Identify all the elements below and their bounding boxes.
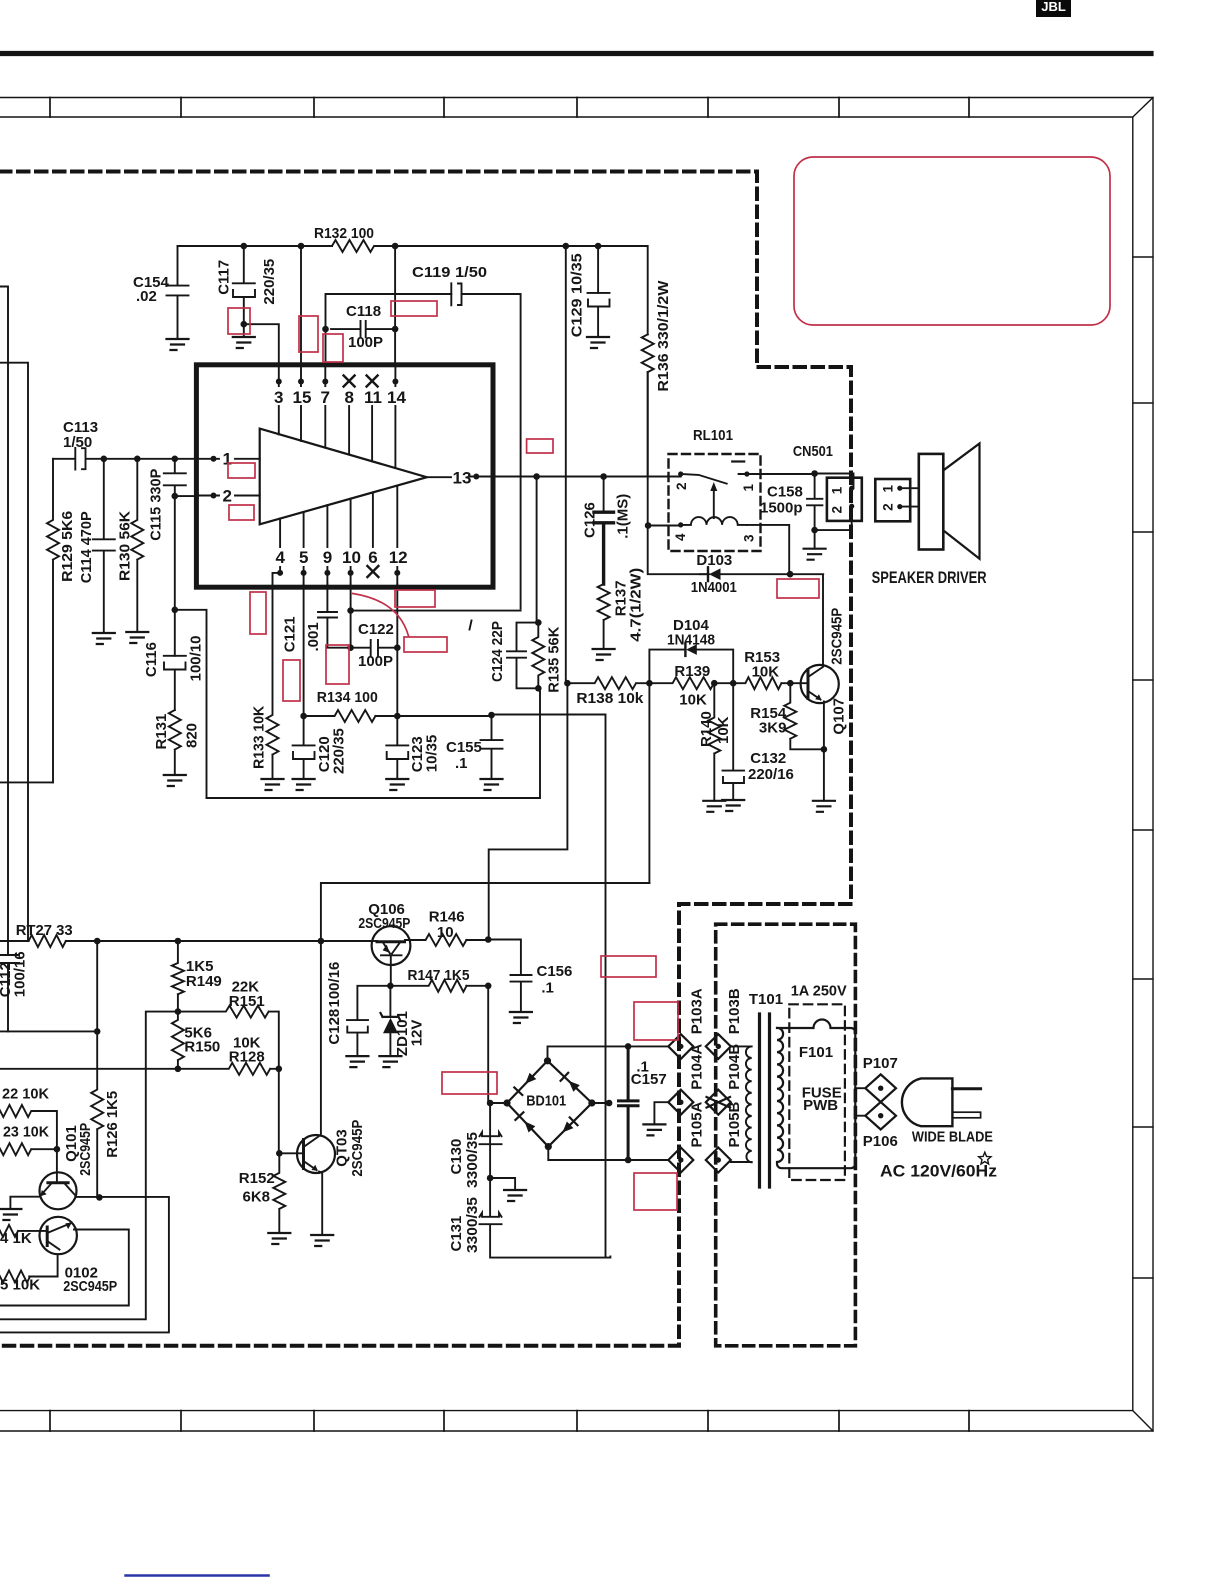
resistor R151 22K xyxy=(178,979,279,1069)
svg-text:820: 820 xyxy=(184,723,201,748)
transistor Q101 2SC945P xyxy=(40,1123,95,1210)
wire C115 node down to C116 xyxy=(174,496,176,656)
wire pin2 from C115 node xyxy=(175,495,197,497)
node junction dot R135/C124 bottom xyxy=(535,685,542,692)
wire pin 12 down to R134 rail xyxy=(396,584,398,716)
svg-text:2SC945P: 2SC945P xyxy=(349,1120,366,1177)
node junction dot BD101 left vertex tie xyxy=(487,1100,494,1107)
node junction dot R151/R128 corner xyxy=(276,1066,283,1073)
ground for Q101 emitter xyxy=(0,1209,21,1220)
capacitor C131 3300/35 (electrolytic) xyxy=(448,1178,610,1258)
node junction dots on pin1 net xyxy=(101,456,179,463)
svg-text:C124 22P: C124 22P xyxy=(489,621,506,682)
svg-text:1500p: 1500p xyxy=(760,500,803,517)
pin 3 lead and number xyxy=(274,365,283,434)
red mark box near C117 xyxy=(228,308,250,334)
wire loop from R149 node to bottom left xyxy=(0,1012,178,1320)
resistor R128 10K xyxy=(178,1034,279,1075)
svg-text:12: 12 xyxy=(389,548,408,567)
svg-text:1N4148: 1N4148 xyxy=(667,632,715,649)
diode D103 1N4001 xyxy=(691,552,790,596)
resistor R138 10k xyxy=(567,677,649,707)
node junction dot pin10/C122 left xyxy=(347,644,354,651)
svg-text:6K8: 6K8 xyxy=(243,1189,271,1206)
red mark box above C157 xyxy=(634,1002,678,1040)
node junction dot C122 right / pin 12 xyxy=(394,644,401,651)
capacitor C123 10/35 (electrolytic) xyxy=(386,716,440,779)
pin 12 lead and number xyxy=(389,486,408,585)
svg-text:R131: R131 xyxy=(153,714,170,750)
svg-text:220/35: 220/35 xyxy=(331,728,348,774)
transistor Q102 2SC945P xyxy=(40,1217,118,1295)
svg-text:R126 1K5: R126 1K5 xyxy=(104,1091,121,1158)
connector diamond P105A xyxy=(668,1101,705,1172)
relay coil RL101 xyxy=(673,517,757,542)
resistor R124 4 1K (cut at edge) xyxy=(0,1225,47,1247)
resistor R122 22 10K (cut at edge) xyxy=(0,1086,57,1150)
svg-text:10: 10 xyxy=(342,548,361,567)
pin 13 lead and number xyxy=(427,469,493,488)
capacitor C156 .1 xyxy=(511,963,573,1012)
svg-text:C122: C122 xyxy=(358,621,394,638)
resistor R153 10K xyxy=(733,649,808,689)
capacitor C122 100P xyxy=(351,621,398,670)
wire Q101 emitter to ground xyxy=(10,1197,39,1209)
svg-text:F101: F101 xyxy=(799,1044,833,1061)
capacitor C115 330P xyxy=(148,459,186,541)
svg-text:4.7(1/2W): 4.7(1/2W) xyxy=(628,568,645,642)
node junction dot C117 bottom xyxy=(241,321,248,328)
svg-text:1N4001: 1N4001 xyxy=(691,579,737,596)
capacitor C155 .1 xyxy=(446,715,503,779)
red mark box near C121 xyxy=(283,660,300,701)
zener diode ZD101 12V xyxy=(381,986,426,1056)
red mark box at pin1 xyxy=(228,463,255,478)
svg-text:5 10K: 5 10K xyxy=(0,1277,40,1294)
JBL logo box xyxy=(1036,0,1071,17)
red rounded callout box xyxy=(794,157,1110,325)
svg-text:C115 330P: C115 330P xyxy=(148,469,165,541)
ground for R133 xyxy=(262,779,284,790)
wire Q107 collector up to D103 node xyxy=(790,574,823,666)
svg-text:100/16: 100/16 xyxy=(12,951,29,997)
svg-text:3K9: 3K9 xyxy=(759,720,787,737)
svg-text:R133 10K: R133 10K xyxy=(251,706,268,769)
svg-text:.1: .1 xyxy=(455,755,468,772)
ground for R140 xyxy=(703,801,725,812)
wire supply drop to BD101 left xyxy=(488,986,490,1178)
ground for C154 xyxy=(167,339,189,350)
node junction dot R146 / supply drop xyxy=(485,936,492,943)
wire mid tap to bottom rail corner xyxy=(175,610,207,798)
red mark box below pin4 xyxy=(250,592,266,634)
node junction dot C118 right xyxy=(392,326,399,333)
red mark box near pin15 xyxy=(299,316,318,352)
svg-text:R140: R140 xyxy=(698,711,715,747)
wire relay contact to CN501 xyxy=(747,474,854,489)
wire R129 bottom to left edge xyxy=(0,781,53,783)
connector diamond P104B crossed xyxy=(706,1044,743,1115)
svg-text:C121: C121 xyxy=(282,616,299,652)
svg-text:T101: T101 xyxy=(749,991,783,1008)
svg-text:C157: C157 xyxy=(631,1071,667,1088)
red mark box right of C118 xyxy=(391,301,437,316)
connector diamond P103B xyxy=(706,988,743,1059)
svg-text:CN501: CN501 xyxy=(793,443,833,460)
node junction dot C157 top xyxy=(625,1043,632,1050)
svg-text:15: 15 xyxy=(293,388,312,407)
resistor R135 56K xyxy=(532,623,562,693)
capacitor C129 10/35 (electrolytic) xyxy=(569,253,610,337)
connector diamond P104A with ground xyxy=(654,1044,705,1125)
connector diamond P103A xyxy=(668,988,705,1059)
svg-text:.02: .02 xyxy=(136,288,157,305)
svg-text:.001: .001 xyxy=(305,622,322,651)
svg-text:2SC945P: 2SC945P xyxy=(63,1278,117,1295)
resistor R137 4.7(1/2W) xyxy=(598,568,645,649)
svg-text:C117: C117 xyxy=(216,260,233,295)
svg-text:SPEAKER DRIVER: SPEAKER DRIVER xyxy=(872,568,987,587)
wire feedback drop from top rail to R138 with jog xyxy=(489,246,568,938)
wire R134 rail to C155 and corner down xyxy=(397,715,605,1257)
node junction dot D103 / coil pin3 / Q107 collector xyxy=(787,571,794,578)
capacitor C119 1/50 (electrolytic) xyxy=(412,264,487,305)
svg-text:AC 120V/60Hz: AC 120V/60Hz xyxy=(880,1162,997,1181)
ANNOTATIONS red marks xyxy=(228,157,1110,1210)
thick top rule xyxy=(0,51,1151,56)
WIRES_AND_PARTS xyxy=(0,157,1110,1332)
node junction dot BD101 right / bus xyxy=(606,1100,613,1107)
wire Q101 collector loop xyxy=(0,1197,169,1333)
wire C129 branch from rail xyxy=(597,246,599,293)
capacitor C113 1/50 (electrolytic) xyxy=(53,419,196,470)
border right ticks xyxy=(1133,257,1153,1278)
node junction dot pin12/C123 xyxy=(394,713,401,720)
red mark box below C157 xyxy=(634,1173,677,1210)
ground for C155 xyxy=(481,779,503,790)
node junction dot Q107 emitter / R154 xyxy=(821,746,828,753)
svg-text:P107: P107 xyxy=(863,1055,898,1072)
svg-text:3300/35: 3300/35 xyxy=(464,1132,481,1188)
svg-text:R136 330/1/2W: R136 330/1/2W xyxy=(655,280,672,392)
pin 2 lead and number xyxy=(196,487,259,506)
AC plug WIDE BLADE xyxy=(902,1078,993,1145)
red mark box at pin2 xyxy=(229,505,254,520)
main PWB dashed boundary xyxy=(0,172,851,1346)
node junction dot R150/R128 xyxy=(175,1066,182,1073)
capacitor C116 100/10 (electrolytic) xyxy=(143,636,205,710)
red mark box near pin9 xyxy=(326,645,349,684)
svg-text:P105A: P105A xyxy=(689,1101,706,1147)
svg-text:10K: 10K xyxy=(752,664,780,681)
svg-text:R151: R151 xyxy=(229,993,265,1010)
node junction dot coil pin4 branch xyxy=(645,522,652,529)
resistor R134 100 xyxy=(304,689,398,722)
capacitor C158 1500p xyxy=(760,474,822,531)
svg-text:1: 1 xyxy=(830,486,845,494)
node junction dot C158 bottom xyxy=(811,527,818,534)
node junction dot C158 top xyxy=(811,470,818,477)
capacitor C128 100/16 (electrolytic) xyxy=(326,962,390,1056)
svg-text:220/16: 220/16 xyxy=(748,766,794,783)
svg-text:.1(MS): .1(MS) xyxy=(615,494,632,539)
svg-text:JBL: JBL xyxy=(1041,0,1066,14)
wire R146 node to C156 xyxy=(488,940,521,976)
transformer T101 primary winding xyxy=(731,991,783,1162)
svg-text:8: 8 xyxy=(345,388,354,407)
node junction dot R147 / supply drop xyxy=(485,983,492,990)
ground for C123 xyxy=(386,779,408,790)
capacitor C112 100/16 (at left edge) xyxy=(0,951,29,1031)
pin 1 lead and number xyxy=(196,450,259,469)
resistor R131 820 xyxy=(153,710,201,775)
wire BD101 left stub xyxy=(490,1102,507,1104)
svg-text:C128: C128 xyxy=(326,1009,343,1045)
svg-text:C118: C118 xyxy=(346,303,381,320)
svg-text:C129 10/35: C129 10/35 xyxy=(569,253,586,337)
ground for ZD101 xyxy=(379,1056,401,1067)
node junction dot R140 top xyxy=(711,680,718,687)
svg-text:C131: C131 xyxy=(448,1216,465,1252)
relay contact arm xyxy=(674,462,756,492)
red mark box below pin13 xyxy=(527,439,553,453)
speaker driver symbol xyxy=(872,444,987,588)
node junction dot R138 left xyxy=(564,680,571,687)
pin 9 lead and number xyxy=(323,505,332,584)
resistor RT27 33 xyxy=(16,922,73,947)
svg-text:100/10: 100/10 xyxy=(188,636,205,682)
red mark box near pin7 xyxy=(323,334,343,362)
svg-text:C130: C130 xyxy=(448,1139,465,1175)
wire C117 node to IC pin 3 xyxy=(244,324,279,365)
svg-text:2SC945P: 2SC945P xyxy=(829,608,846,665)
ground for C130 xyxy=(504,1190,526,1201)
svg-text:2: 2 xyxy=(830,506,845,514)
wire pin13 net down to R135 top xyxy=(536,477,538,623)
svg-text:2SC945P: 2SC945P xyxy=(77,1123,94,1176)
svg-text:100P: 100P xyxy=(358,653,393,670)
svg-text:9: 9 xyxy=(323,548,332,567)
capacitor C154 .02 xyxy=(133,246,189,339)
node junction dot QT03 base / R152 xyxy=(276,1150,283,1157)
red mark box right of pin12 xyxy=(395,590,435,607)
bridge rectifier BD101 xyxy=(503,1057,595,1150)
ground for P104A xyxy=(643,1124,665,1135)
svg-text:P106: P106 xyxy=(863,1133,898,1150)
capacitor C130 3300/35 (electrolytic) xyxy=(448,1132,502,1188)
svg-text:P104B: P104B xyxy=(726,1044,743,1090)
ground for QT03 emitter xyxy=(311,1235,333,1246)
node junction dot R138/R139/D104 xyxy=(646,680,653,687)
svg-text:R135 56K: R135 56K xyxy=(546,627,563,693)
pin 6 lead with X mark and number xyxy=(367,492,378,577)
svg-text:4: 4 xyxy=(276,548,286,567)
wire pin 5 down to R134 rail xyxy=(303,584,305,716)
svg-text:100/16: 100/16 xyxy=(326,962,343,1008)
wire coil pin 3 to D103 node xyxy=(747,525,789,574)
wire BD101 top to P103A rail xyxy=(548,1046,669,1060)
wire Q102 collector down to R125 xyxy=(29,1254,57,1276)
pin 11 X mark and number xyxy=(364,376,382,462)
wire C158 bottom to CN501 pin2 and ground xyxy=(815,506,852,549)
resistor R129 5K6 xyxy=(47,459,76,783)
resistor R146 10 xyxy=(405,909,488,947)
svg-text:R138 10k: R138 10k xyxy=(576,690,644,707)
svg-text:RL101: RL101 xyxy=(693,427,733,444)
node junction dot C132 top xyxy=(730,680,737,687)
svg-text:100P: 100P xyxy=(348,334,383,351)
svg-text:1/50: 1/50 xyxy=(63,434,92,451)
svg-text:13: 13 xyxy=(453,469,472,488)
red mark box left of BD101 xyxy=(442,1072,497,1094)
connector speaker side plug xyxy=(875,479,919,521)
pin 8 X mark and number xyxy=(344,376,355,455)
svg-text:5: 5 xyxy=(299,548,308,567)
node junction dots on RT27 rail xyxy=(94,938,324,945)
wire Q106 emitter down xyxy=(390,955,392,986)
resistor R147 1K5 xyxy=(390,967,488,992)
svg-text:220/35: 220/35 xyxy=(261,259,278,305)
svg-text:R152: R152 xyxy=(239,1170,275,1187)
pin 10 lead and number xyxy=(342,499,361,585)
svg-text:2: 2 xyxy=(674,482,689,490)
resistor R150 5K6 xyxy=(172,1012,220,1069)
op-amp triangle inside IC xyxy=(260,429,427,525)
node junction dot R126 tap xyxy=(94,1028,101,1035)
svg-text:11: 11 xyxy=(364,388,382,407)
svg-text:R132 100: R132 100 xyxy=(314,225,374,242)
wire stub from left edge to R126 tap xyxy=(0,1030,97,1032)
pin 5 lead and number xyxy=(299,512,308,584)
ground for Q107 emitter xyxy=(813,801,835,812)
fuse PWB F101 outline with secondary winding edge xyxy=(777,983,855,1169)
IC main hybrid block outline xyxy=(196,365,493,587)
border frame outer lines xyxy=(0,98,1153,1432)
node junction dot mid tap xyxy=(172,607,179,614)
ground for C120 xyxy=(293,779,315,790)
relay RL101 dashed box xyxy=(669,427,761,551)
node junction dot C118 left / pin 7 xyxy=(322,326,329,333)
svg-text:Q107: Q107 xyxy=(831,698,848,735)
resistor R149 1K5 xyxy=(172,941,222,1012)
resistor R152 6K8 xyxy=(239,1153,285,1233)
svg-text:10: 10 xyxy=(437,924,454,941)
svg-text:23 10K: 23 10K xyxy=(3,1124,49,1141)
svg-text:R139: R139 xyxy=(674,663,710,680)
capacitor C132 220/16 (electrolytic) xyxy=(723,683,794,800)
svg-text:.1: .1 xyxy=(541,980,554,997)
connector CN501 xyxy=(793,443,862,521)
wire left edge stub upper xyxy=(0,287,8,956)
svg-text:2: 2 xyxy=(881,503,896,511)
wire QT03 emitter to ground xyxy=(319,1172,322,1236)
svg-text:RT27 33: RT27 33 xyxy=(16,922,73,939)
resistor R136 330/1/2W xyxy=(642,280,672,475)
wire control rail RT27 net xyxy=(0,940,372,942)
svg-text:1: 1 xyxy=(881,485,896,493)
svg-text:10/35: 10/35 xyxy=(424,735,441,773)
svg-text:R128: R128 xyxy=(229,1049,265,1066)
star footnote mark xyxy=(979,1152,991,1164)
wire D104 node down to top link corner xyxy=(648,683,650,883)
wire Q102 emitter to loop box xyxy=(0,1230,129,1306)
svg-text:BD101: BD101 xyxy=(526,1093,566,1110)
wire QT03 collector riser and top link xyxy=(321,883,650,1136)
node junction dot R135/C124 top xyxy=(535,619,542,626)
transistor QT03 2SC945P xyxy=(279,1120,366,1177)
svg-text:4 1K: 4 1K xyxy=(0,1230,32,1247)
svg-text:R147 1K5: R147 1K5 xyxy=(408,967,470,984)
blue reference underline bottom left xyxy=(126,1574,269,1577)
capacitor C117 220/35 (electrolytic) xyxy=(216,246,279,337)
svg-text:1A 250V: 1A 250V xyxy=(791,983,847,1000)
resistor R140 10K xyxy=(698,683,732,801)
pin 14 lead and number xyxy=(387,365,406,468)
wire bottom rail xyxy=(207,688,541,798)
border corner bevels xyxy=(1133,98,1153,1432)
svg-text:C119 1/50: C119 1/50 xyxy=(412,264,487,281)
svg-text:22 10K: 22 10K xyxy=(2,1086,49,1103)
svg-text:C126: C126 xyxy=(582,502,599,538)
ground for R130 xyxy=(126,632,148,643)
ground for C117 xyxy=(233,337,255,348)
stray tick mark left of C124 label xyxy=(470,621,472,630)
svg-text:C155: C155 xyxy=(446,739,482,756)
transformer unit dashed box xyxy=(716,924,856,1346)
svg-text:C156: C156 xyxy=(537,963,573,980)
node junction dot Q107 base / R154 xyxy=(787,680,794,687)
fuse F101 dashed box xyxy=(789,1004,845,1180)
border top ticks xyxy=(50,98,969,118)
resistor R123 23 10K (cut at edge) xyxy=(0,1124,57,1156)
node junction dot C157 bottom xyxy=(625,1157,632,1164)
svg-text:6: 6 xyxy=(368,548,377,567)
wire fuse to P106 xyxy=(855,1115,865,1117)
resistor R132 100 xyxy=(314,225,374,252)
wire fuse to P107 xyxy=(855,1087,865,1089)
ground for C128 xyxy=(346,1056,368,1067)
resistor R125 5 10K (cut at edge) xyxy=(0,1271,40,1294)
ground for R131 xyxy=(164,775,186,786)
wire coil pin 4 stub xyxy=(648,525,681,527)
red freehand curve near C122 xyxy=(353,594,409,637)
capacitor C121 .001 on pin 9 xyxy=(282,584,351,652)
relay actuator arrow xyxy=(710,482,717,518)
svg-text:C158: C158 xyxy=(767,484,803,501)
pin 15 lead and number xyxy=(293,365,312,441)
connector diamond P106 xyxy=(863,1102,898,1150)
svg-text:3300/35: 3300/35 xyxy=(464,1197,481,1253)
resistor R126 1K5 xyxy=(91,941,121,1197)
ground for C132 xyxy=(722,800,744,811)
wire left edge stub lower xyxy=(0,363,28,941)
svg-text:P103B: P103B xyxy=(726,988,743,1034)
wire pin13 output net xyxy=(493,476,681,478)
diode D104 1N4148 xyxy=(667,617,715,656)
resistor R133 10K xyxy=(251,584,279,779)
resistor R139 10K xyxy=(649,663,733,709)
wire BD101 right vertex to supply bus xyxy=(592,1102,609,1104)
node junction dot pin5/C120 xyxy=(300,713,307,720)
node junction dot pin10 upper tap xyxy=(347,607,354,614)
wire top supply rail xyxy=(178,246,648,334)
wire top rail to IC pin 15 xyxy=(300,246,302,365)
transformer T101 core xyxy=(760,1014,770,1187)
node junction dots on pin13 net xyxy=(533,473,607,480)
wire top rail to IC pin 14 through C118 node xyxy=(394,246,396,365)
resistor R154 3K9 xyxy=(750,683,824,749)
node junction dot C130 ground tap xyxy=(487,1175,494,1182)
